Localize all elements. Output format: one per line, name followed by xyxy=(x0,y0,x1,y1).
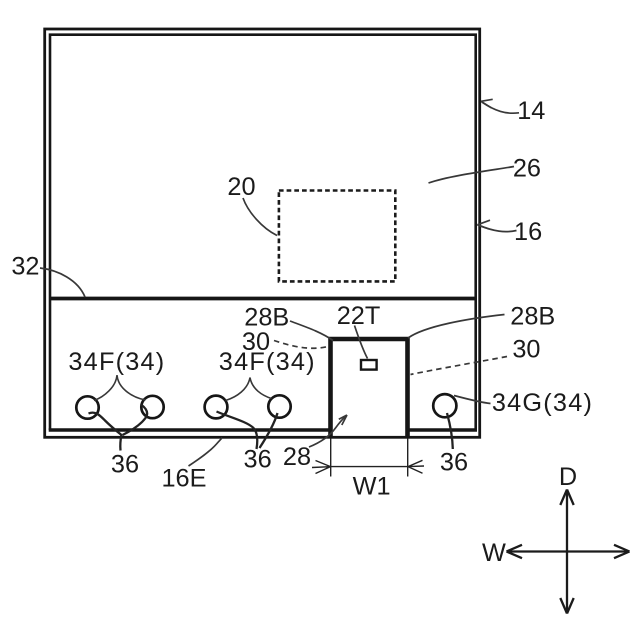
leader for 16E xyxy=(189,438,223,466)
brace branch right of 34F pair 2 xyxy=(250,378,272,399)
component 20 dashed box xyxy=(279,191,395,282)
leader for 16 xyxy=(479,225,517,231)
leader circle 34G to 36 no.3 xyxy=(447,413,453,449)
svg-text:W1: W1 xyxy=(353,472,391,500)
leader for 26 xyxy=(429,167,515,184)
svg-text:20: 20 xyxy=(227,173,255,201)
leader for 28B right xyxy=(408,315,505,339)
leader circle2 to 36 no.1 xyxy=(123,405,148,436)
leader for 14 xyxy=(482,102,519,113)
leader circle3 to 36 no.2 xyxy=(217,412,258,450)
terminal 22T xyxy=(361,360,377,370)
brace branch right of 34F pair 1 xyxy=(117,375,146,400)
leader circle1 to 36 no.1 xyxy=(89,413,122,435)
svg-text:34G(34): 34G(34) xyxy=(492,389,593,417)
W1 dimension line xyxy=(331,466,408,468)
partition wall 32 xyxy=(50,297,476,301)
hole 34F circle 1 xyxy=(76,396,98,418)
W1 extension line right xyxy=(407,439,409,477)
leader for 22T xyxy=(355,326,368,359)
svg-text:22T: 22T xyxy=(337,302,381,330)
brace branch left of 34F pair 2 xyxy=(226,378,251,401)
recess 28 walls xyxy=(331,339,408,436)
arrowhead 28 xyxy=(339,415,347,425)
W1 right arrow xyxy=(408,460,424,473)
outer housing wall 14 xyxy=(45,29,480,437)
hole 34F circle 3 xyxy=(205,396,228,419)
svg-text:D: D xyxy=(559,463,577,491)
leader for 34G(34) xyxy=(454,396,491,404)
leader circle4 to 36 no.2 xyxy=(260,413,278,448)
arrowhead up xyxy=(560,490,573,506)
leader for 28B left xyxy=(290,321,333,341)
bottom wall 16E left segment xyxy=(49,428,331,432)
hole 34F circle 2 xyxy=(141,396,163,418)
svg-text:32: 32 xyxy=(11,253,39,281)
leader for 20 xyxy=(243,198,277,236)
leader for 32 xyxy=(40,268,85,297)
svg-text:36: 36 xyxy=(244,445,272,473)
inner wall 16 (left, top, right sides) xyxy=(50,35,476,430)
arrowhead down xyxy=(560,598,573,614)
svg-text:26: 26 xyxy=(513,155,541,183)
svg-text:16E: 16E xyxy=(161,465,206,493)
svg-text:16: 16 xyxy=(514,218,542,246)
dashed leader for 30 right xyxy=(411,357,508,375)
svg-text:36: 36 xyxy=(111,450,139,478)
leader stem to 36 no.1 xyxy=(120,435,121,451)
svg-text:W: W xyxy=(482,539,506,567)
svg-text:34F(34): 34F(34) xyxy=(219,348,316,376)
hole 34F circle 4 xyxy=(268,395,290,417)
svg-text:28B: 28B xyxy=(510,302,555,330)
svg-text:28: 28 xyxy=(283,443,311,471)
arrowhead 16 xyxy=(477,220,490,229)
dashed leader for 30 left xyxy=(274,341,328,349)
curved arrow for 28 xyxy=(309,416,347,448)
W1 extension line left xyxy=(330,439,332,477)
arrowhead 14 xyxy=(481,99,493,108)
svg-text:34F(34): 34F(34) xyxy=(68,348,165,376)
svg-text:14: 14 xyxy=(517,97,545,125)
hole 34G circle xyxy=(433,394,456,417)
arrowhead left xyxy=(507,545,523,558)
direction cross horizontal line xyxy=(507,550,630,552)
arrowhead right xyxy=(614,545,630,558)
direction cross vertical line xyxy=(566,490,568,614)
brace branch left of 34F pair 1 xyxy=(94,375,117,400)
svg-text:30: 30 xyxy=(512,336,540,364)
bottom wall 16E right segment xyxy=(408,428,478,432)
W1 left arrow xyxy=(312,461,331,474)
svg-text:36: 36 xyxy=(440,448,468,476)
